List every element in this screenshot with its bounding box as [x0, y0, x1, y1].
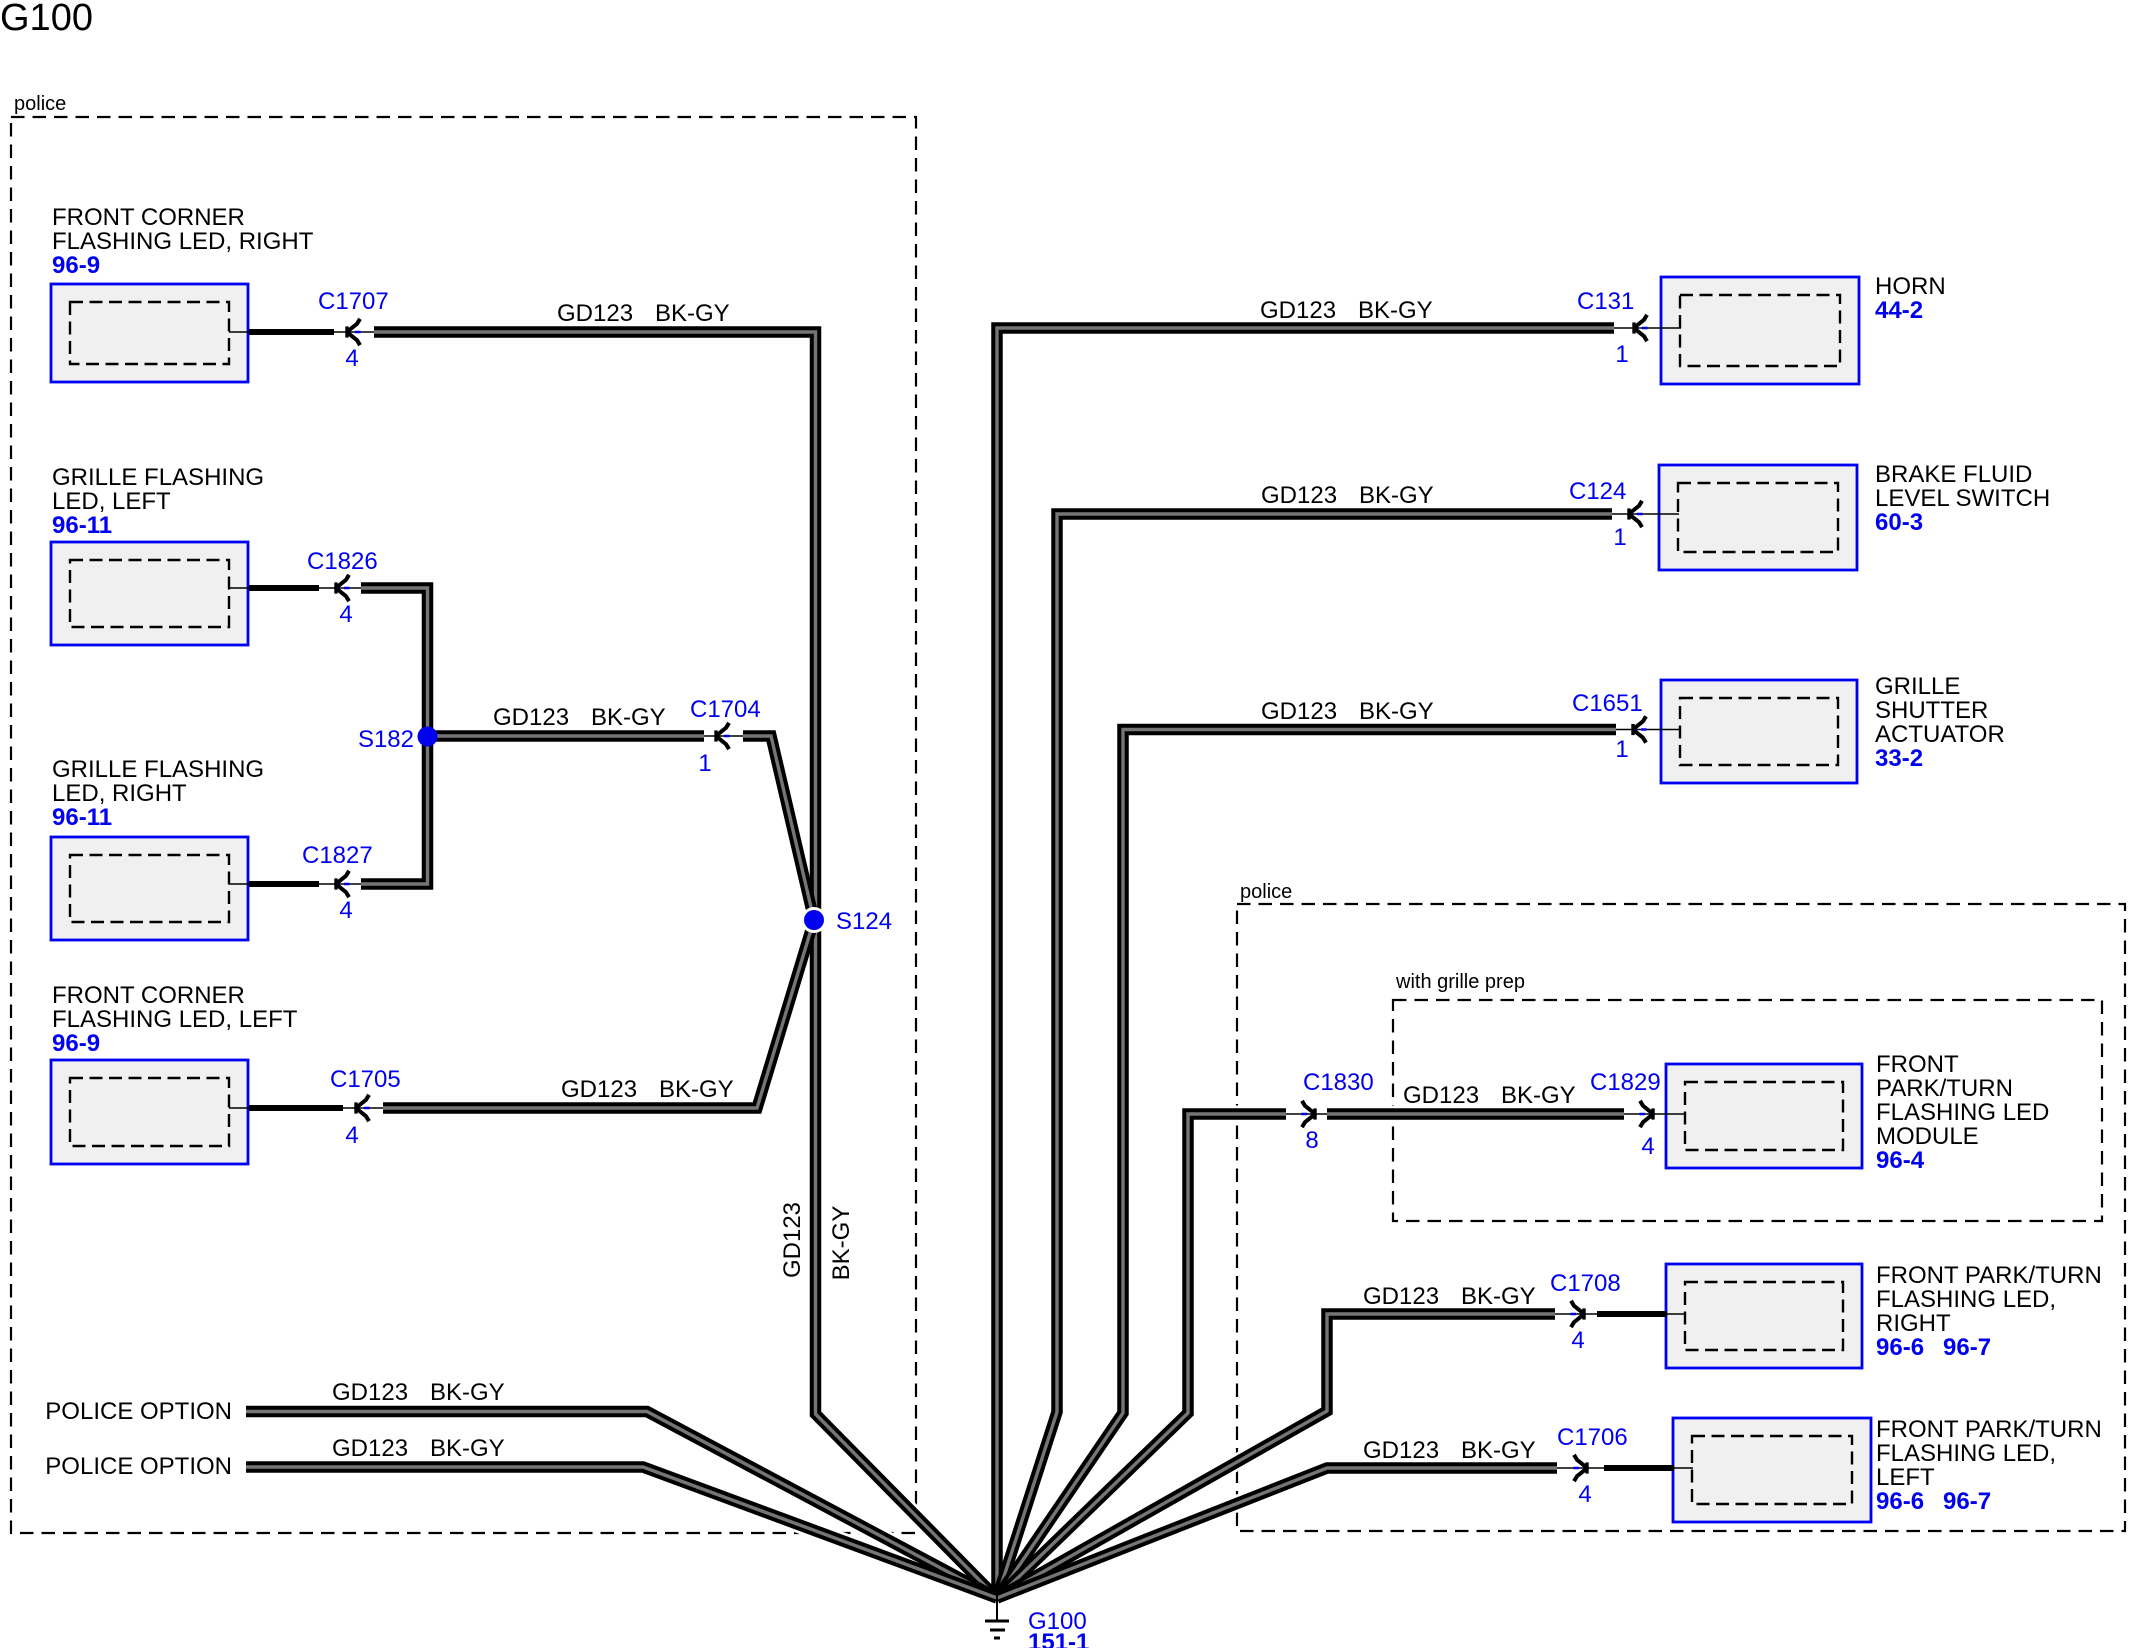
svg-text:4: 4: [1578, 1481, 1591, 1508]
svg-text:S182: S182: [358, 726, 414, 753]
wire GD123 BK-GY from C1705 to S124: [383, 920, 814, 1108]
svg-text:4: 4: [345, 345, 358, 372]
connector symbol C1827: [334, 871, 350, 897]
svg-text:BK-GY: BK-GY: [430, 1379, 505, 1406]
svg-text:POLICE OPTION: POLICE OPTION: [45, 1398, 232, 1425]
svg-text:police: police: [1240, 881, 1292, 903]
svg-text:GRILLE: GRILLE: [1875, 673, 1960, 700]
wire GD123 BK-GY from S182 to C1704: [428, 730, 705, 742]
svg-text:G100: G100: [0, 0, 93, 39]
svg-text:151-1: 151-1: [1028, 1629, 1089, 1648]
label C1830-C1829 run: [1403, 1082, 1576, 1109]
svg-text:4: 4: [1571, 1327, 1584, 1354]
label C1705 run: [561, 1076, 734, 1103]
wire lead C1827: [229, 883, 361, 885]
wire lead C1708: [1555, 1313, 1686, 1315]
svg-text:S124: S124: [836, 908, 892, 935]
svg-text:C1829: C1829: [1590, 1069, 1661, 1096]
svg-text:BK-GY: BK-GY: [655, 300, 730, 327]
wire lead C1651: [1616, 729, 1680, 731]
svg-text:96-696-7: 96-696-7: [1876, 1334, 1991, 1361]
svg-text:C1704: C1704: [690, 696, 761, 723]
wire GD123 BK-GY POLICE OPTION 1 to G100: [246, 1412, 997, 1599]
svg-text:96-11: 96-11: [52, 804, 112, 831]
svg-text:GRILLE FLASHING: GRILLE FLASHING: [52, 756, 264, 783]
wire GD123 BK-GY from C124 to G100: [997, 514, 1612, 1598]
wire GD123 BK-GY from C1706 to G100: [997, 1468, 1557, 1598]
svg-text:POLICE OPTION: POLICE OPTION: [45, 1453, 232, 1480]
svg-text:SHUTTER: SHUTTER: [1875, 697, 1988, 724]
connector symbol C131: [1632, 315, 1648, 341]
svg-text:C131: C131: [1577, 288, 1634, 315]
svg-text:33-2: 33-2: [1875, 745, 1923, 772]
wire lead C124: [1612, 513, 1679, 515]
svg-text:BK-GY: BK-GY: [1501, 1082, 1576, 1109]
wire pigtail C1707: [249, 329, 334, 335]
svg-text:1: 1: [1613, 524, 1626, 551]
label FRONT PARK/TURN FLASHING LED MODULE 96-4: [1876, 1051, 2049, 1174]
svg-text:GD123: GD123: [332, 1435, 408, 1462]
wire pigtail C1826: [249, 585, 319, 591]
svg-text:GD123: GD123: [1261, 698, 1337, 725]
connector symbol C1706: [1574, 1455, 1590, 1481]
wire GD123 BK-GY trunk from C1707 via S124 to G100: [374, 332, 997, 1598]
svg-text:4: 4: [345, 1122, 358, 1149]
label BRAKE FLUID LEVEL SWITCH 60-3: [1875, 461, 2050, 536]
label C1651 run: [1261, 698, 1434, 725]
svg-text:police: police: [14, 93, 66, 115]
svg-text:GD123: GD123: [332, 1379, 408, 1406]
svg-text:FLASHING LED, LEFT: FLASHING LED, LEFT: [52, 1006, 298, 1033]
wire GD123 BK-GY from HORN C131 to G100: [997, 328, 1614, 1598]
svg-text:GD123: GD123: [493, 704, 569, 731]
svg-text:1: 1: [1615, 341, 1628, 368]
connector symbol C1651: [1631, 716, 1647, 742]
svg-text:GD123: GD123: [779, 1202, 806, 1278]
svg-text:FLASHING LED,: FLASHING LED,: [1876, 1286, 2056, 1313]
svg-text:GD123: GD123: [1363, 1437, 1439, 1464]
svg-text:C1705: C1705: [330, 1066, 401, 1093]
svg-text:BK-GY: BK-GY: [828, 1206, 855, 1281]
svg-text:MODULE: MODULE: [1876, 1123, 1979, 1150]
svg-text:FLASHING LED,: FLASHING LED,: [1876, 1440, 2056, 1467]
svg-text:8: 8: [1305, 1127, 1318, 1154]
wire GD123 BK-GY from C1704 to S124: [743, 736, 814, 920]
svg-text:GD123: GD123: [557, 300, 633, 327]
wire lead C1704: [704, 735, 743, 737]
svg-text:FRONT PARK/TURN: FRONT PARK/TURN: [1876, 1416, 2102, 1443]
wire lead C1829: [1624, 1113, 1686, 1115]
svg-text:BK-GY: BK-GY: [430, 1435, 505, 1462]
svg-text:BK-GY: BK-GY: [1461, 1283, 1536, 1310]
wire lead C1830: [1286, 1113, 1327, 1115]
svg-text:BK-GY: BK-GY: [1359, 482, 1434, 509]
wire GD123 BK-GY from C1830 to G100: [997, 1114, 1286, 1598]
svg-text:PARK/TURN: PARK/TURN: [1876, 1075, 2013, 1102]
svg-text:ACTUATOR: ACTUATOR: [1875, 721, 2005, 748]
svg-text:1: 1: [698, 750, 711, 777]
connector symbol C1704: [714, 723, 730, 749]
svg-text:96-11: 96-11: [52, 512, 112, 539]
svg-text:4: 4: [1641, 1133, 1654, 1160]
svg-text:BRAKE FLUID: BRAKE FLUID: [1875, 461, 2032, 488]
connector FRONT CORNER FLASHING LED LEFT: [51, 1060, 248, 1164]
svg-text:4: 4: [339, 897, 352, 924]
svg-text:LEFT: LEFT: [1876, 1464, 1935, 1491]
wire GD123 BK-GY from C1826 via S182 to C1827: [361, 588, 428, 884]
svg-text:44-2: 44-2: [1875, 297, 1923, 324]
svg-text:GD123: GD123: [1261, 482, 1337, 509]
svg-text:96-9: 96-9: [52, 1030, 100, 1057]
ground G100: [985, 1595, 1009, 1638]
with grille prep region box: [1393, 1000, 2102, 1221]
connector symbol C1705: [354, 1095, 370, 1121]
wire pigtail C1708: [1597, 1311, 1667, 1317]
label FRONT PARK/TURN FLASHING LED, LEFT 96-6 96-7: [1876, 1416, 2102, 1515]
wire GD123 BK-GY from C1708 to G100: [997, 1314, 1555, 1598]
connector FRONT PARK/TURN FLASHING LED RIGHT: [1666, 1264, 1862, 1368]
connector HORN: [1661, 277, 1859, 384]
label C1706 run: [1363, 1437, 1536, 1464]
label police option 2 run: [332, 1435, 505, 1462]
label C1707 run: [557, 300, 730, 327]
svg-text:60-3: 60-3: [1875, 509, 1923, 536]
splice S124: [801, 907, 892, 935]
connector GRILLE FLASHING LED LEFT: [51, 542, 248, 645]
svg-text:96-9: 96-9: [52, 252, 100, 279]
label FRONT PARK/TURN FLASHING LED, RIGHT 96-6 96-7: [1876, 1262, 2102, 1361]
svg-text:C1708: C1708: [1550, 1270, 1621, 1297]
svg-text:FRONT PARK/TURN: FRONT PARK/TURN: [1876, 1262, 2102, 1289]
connector symbol C1829: [1640, 1101, 1656, 1127]
label FRONT CORNER FLASHING LED, RIGHT 96-9: [52, 204, 314, 279]
connector BRAKE FLUID LEVEL SWITCH: [1659, 465, 1857, 570]
svg-text:FRONT: FRONT: [1876, 1051, 1959, 1078]
svg-text:FLASHING LED: FLASHING LED: [1876, 1099, 2049, 1126]
wire lead C1707: [229, 331, 374, 333]
wire halos: [374, 332, 997, 1598]
svg-text:FLASHING LED, RIGHT: FLASHING LED, RIGHT: [52, 228, 314, 255]
svg-text:C1707: C1707: [318, 288, 389, 315]
svg-text:BK-GY: BK-GY: [591, 704, 666, 731]
svg-text:GD123: GD123: [1403, 1082, 1479, 1109]
svg-text:GD123: GD123: [561, 1076, 637, 1103]
label FRONT CORNER FLASHING LED, LEFT 96-9: [52, 982, 298, 1057]
connector symbol C1707: [345, 319, 361, 345]
label GRILLE FLASHING LED, RIGHT 96-11: [52, 756, 264, 831]
svg-text:GD123: GD123: [1260, 297, 1336, 324]
svg-text:FRONT CORNER: FRONT CORNER: [52, 982, 245, 1009]
connector symbol C1826: [334, 575, 350, 601]
svg-text:C124: C124: [1569, 478, 1626, 505]
connector GRILLE FLASHING LED RIGHT: [51, 837, 248, 940]
svg-text:C1826: C1826: [307, 548, 378, 575]
svg-text:FRONT CORNER: FRONT CORNER: [52, 204, 245, 231]
svg-text:BK-GY: BK-GY: [1461, 1437, 1536, 1464]
svg-text:BK-GY: BK-GY: [659, 1076, 734, 1103]
label HORN 44-2: [1875, 273, 1946, 324]
svg-text:GRILLE FLASHING: GRILLE FLASHING: [52, 464, 264, 491]
wire pigtail C1705: [249, 1105, 343, 1111]
label GRILLE SHUTTER ACTUATOR 33-2: [1875, 673, 2005, 772]
svg-text:LEVEL SWITCH: LEVEL SWITCH: [1875, 485, 2050, 512]
police region box (left): [11, 117, 916, 1533]
svg-text:BK-GY: BK-GY: [1358, 297, 1433, 324]
connector symbol C1708: [1571, 1301, 1587, 1327]
wire lead C131: [1614, 327, 1681, 329]
wire lead C1705: [229, 1107, 383, 1109]
wire pigtail C1827: [249, 881, 319, 887]
svg-text:BK-GY: BK-GY: [1359, 698, 1434, 725]
svg-text:C1706: C1706: [1557, 1424, 1628, 1451]
svg-text:with grille prep: with grille prep: [1395, 971, 1525, 993]
svg-text:1: 1: [1615, 736, 1628, 763]
wire GD123 BK-GY POLICE OPTION 2 to G100: [246, 1467, 997, 1598]
wire pigtail C1706: [1604, 1465, 1674, 1471]
police region box (right): [1237, 904, 2125, 1531]
connector FRONT CORNER FLASHING LED RIGHT: [51, 284, 248, 382]
connector symbol C1830: [1302, 1101, 1318, 1127]
svg-text:C1827: C1827: [302, 842, 373, 869]
connector symbol C124: [1627, 501, 1643, 527]
svg-text:C1651: C1651: [1572, 690, 1643, 717]
label GRILLE FLASHING LED, LEFT 96-11: [52, 464, 264, 539]
svg-text:HORN: HORN: [1875, 273, 1946, 300]
connector FRONT PARK/TURN FLASHING LED LEFT: [1673, 1418, 1871, 1522]
splice S182: [358, 726, 438, 753]
svg-text:C1830: C1830: [1303, 1069, 1374, 1096]
label S182-C1704 run: [493, 704, 666, 731]
svg-text:4: 4: [339, 601, 352, 628]
connector FRONT PARK/TURN FLASHING LED MODULE: [1666, 1064, 1862, 1168]
wire lead C1706: [1557, 1467, 1693, 1469]
label C124 run: [1261, 482, 1434, 509]
label police option 1 run: [332, 1379, 505, 1406]
svg-text:RIGHT: RIGHT: [1876, 1310, 1951, 1337]
svg-text:LED, RIGHT: LED, RIGHT: [52, 780, 187, 807]
svg-text:LED, LEFT: LED, LEFT: [52, 488, 171, 515]
svg-text:96-4: 96-4: [1876, 1147, 1925, 1174]
label C1708 run: [1363, 1283, 1536, 1310]
connector GRILLE SHUTTER ACTUATOR: [1661, 680, 1857, 783]
svg-text:GD123: GD123: [1363, 1283, 1439, 1310]
wire GD123 BK-GY from C1830 to C1829: [1327, 1108, 1624, 1120]
wire GD123 BK-GY from C1651 to G100: [997, 730, 1616, 1599]
wire lead C1826: [229, 587, 361, 589]
svg-text:96-696-7: 96-696-7: [1876, 1488, 1991, 1515]
label HORN run: [1260, 297, 1433, 324]
